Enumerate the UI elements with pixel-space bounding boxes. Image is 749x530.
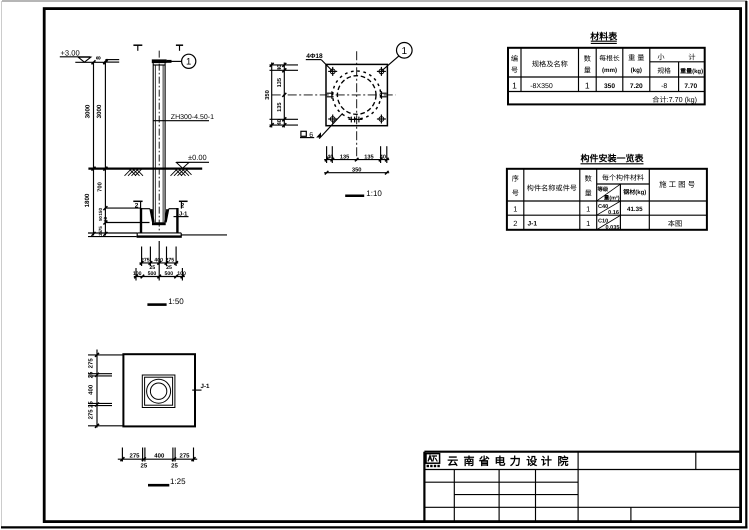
paper bottom edge line	[1, 526, 748, 528]
svg-text:400: 400	[88, 384, 95, 395]
svg-text:275: 275	[88, 358, 95, 369]
svg-text:1800: 1800	[84, 193, 91, 207]
svg-text:钢材(kg): 钢材(kg)	[623, 188, 646, 196]
svg-text:1: 1	[186, 57, 191, 68]
svg-text:275: 275	[179, 453, 190, 460]
pole cap plate (black)	[152, 59, 167, 63]
svg-text:每个构件材料: 每个构件材料	[602, 174, 644, 182]
svg-text:C10: C10	[598, 219, 608, 225]
weld note square symbol	[301, 131, 306, 136]
svg-text:3000: 3000	[85, 104, 92, 118]
svg-text:3000: 3000	[96, 104, 103, 118]
svg-text:135: 135	[277, 103, 283, 112]
svg-text:25: 25	[171, 462, 178, 469]
svg-text:1: 1	[586, 205, 590, 214]
foundation dim row2 line	[134, 276, 185, 278]
plan bottom dim line	[118, 458, 197, 460]
socket inner shading left	[151, 209, 153, 222]
svg-text:本图: 本图	[668, 219, 682, 228]
cup circle inner	[150, 383, 166, 399]
svg-text:41.35: 41.35	[627, 206, 643, 213]
svg-text:量(m³): 量(m³)	[604, 195, 620, 202]
title block top line	[424, 451, 740, 453]
svg-text:计: 计	[688, 53, 695, 62]
svg-text:合计:7.70 (kg): 合计:7.70 (kg)	[652, 95, 697, 104]
svg-text:施工图号: 施工图号	[659, 180, 697, 189]
section mark T left	[133, 45, 142, 51]
svg-text:数: 数	[585, 174, 592, 183]
ground line	[88, 168, 202, 170]
title block vertical lines	[454, 452, 696, 521]
pole type label leader	[154, 120, 210, 122]
under-cap flange line	[153, 64, 165, 66]
stiffener mark right	[380, 91, 387, 99]
dim row2 ticks	[134, 275, 184, 279]
svg-text:25: 25	[88, 401, 95, 408]
weld note flag	[316, 132, 321, 137]
inner ticks	[282, 63, 286, 127]
dim ticks on vertical chains	[92, 60, 108, 236]
section mark T right	[176, 45, 183, 51]
svg-text:2: 2	[513, 219, 517, 228]
svg-text:重量(kg): 重量(kg)	[680, 67, 703, 75]
extension line socket bottom	[105, 222, 149, 224]
plan bottom ticks	[120, 457, 195, 461]
svg-text:25: 25	[166, 265, 172, 271]
paper left edge line	[1, 1, 3, 528]
svg-text:135: 135	[340, 155, 349, 161]
svg-text:100: 100	[177, 271, 186, 277]
section mark 2 left	[133, 201, 142, 209]
svg-text:275: 275	[141, 258, 150, 264]
plan left dim line inner	[283, 63, 285, 128]
foundation dim row1 line	[140, 262, 179, 264]
bolt hole top-right	[377, 67, 386, 76]
svg-text:量: 量	[585, 189, 592, 198]
weld dash ring quadrant arcs	[333, 71, 381, 119]
plan left ticks	[95, 353, 99, 428]
svg-text:C40: C40	[598, 204, 608, 210]
svg-text:1: 1	[586, 219, 590, 228]
svg-text:量: 量	[584, 66, 591, 75]
svg-text:编: 编	[511, 54, 518, 63]
plate square	[326, 64, 387, 125]
title block left line	[423, 452, 425, 521]
svg-text:重 量: 重 量	[628, 53, 644, 62]
svg-text:-8X350: -8X350	[530, 83, 553, 90]
cup foundation left wall	[140, 208, 142, 233]
title underline	[581, 163, 644, 165]
title block horizontal lines	[424, 470, 740, 508]
svg-text:40: 40	[380, 155, 386, 161]
scale bar 1:25	[148, 484, 169, 487]
svg-text:构件安装一览表: 构件安装一览表	[580, 153, 644, 163]
svg-text:1:25: 1:25	[170, 477, 186, 486]
extension line slab bottom	[88, 236, 137, 238]
plate horizontal centerline	[272, 94, 396, 96]
svg-text:J-1: J-1	[528, 221, 538, 228]
bolt hole top-left	[328, 67, 337, 76]
pole centerline	[158, 51, 160, 231]
extension line cup top	[105, 207, 140, 209]
svg-text:135: 135	[364, 155, 373, 161]
weld note underline	[300, 137, 314, 139]
paper top edge line	[2, 0, 747, 2]
svg-text:1: 1	[513, 205, 517, 214]
plate vertical centerline	[356, 51, 358, 162]
svg-text:25: 25	[88, 371, 95, 378]
pole tube inner walls	[154, 65, 156, 222]
pole bottom grout bar	[152, 222, 166, 225]
svg-text:25: 25	[98, 230, 103, 236]
weld note leader	[319, 113, 342, 138]
svg-text:计: 计	[541, 455, 552, 468]
detail bubble 1 (plan)	[397, 43, 413, 59]
J-1 label leader	[192, 389, 201, 391]
stiffener mark left	[327, 91, 334, 99]
bolt hole bottom-left	[328, 115, 337, 124]
dim line vertical 1	[93, 62, 95, 235]
svg-text:500: 500	[148, 271, 157, 277]
svg-text:构件名称或件号: 构件名称或件号	[527, 184, 577, 193]
svg-text:1:10: 1:10	[366, 189, 382, 198]
svg-text:75: 75	[98, 226, 103, 232]
svg-text:275: 275	[165, 258, 174, 264]
svg-text:-8: -8	[661, 83, 667, 90]
cup foundation right wall	[176, 208, 178, 233]
outer ticks	[270, 63, 274, 127]
svg-text:2: 2	[135, 203, 139, 210]
svg-text:350: 350	[352, 167, 362, 174]
plan bottom dim extension lines	[327, 146, 387, 163]
bolt label leader	[321, 60, 332, 71]
level line	[75, 61, 103, 63]
inner cup square inner	[145, 377, 173, 405]
plan bottom extension lines	[122, 448, 193, 462]
svg-text:10: 10	[103, 217, 108, 223]
svg-text:40: 40	[327, 155, 333, 161]
plan left dim line outer	[271, 63, 273, 128]
svg-text:275: 275	[88, 409, 95, 420]
svg-text:25: 25	[149, 265, 155, 271]
pole tube dashed circle	[337, 76, 376, 115]
foundation plan big square	[123, 354, 195, 426]
svg-text:0.16: 0.16	[608, 210, 619, 216]
svg-text:数: 数	[584, 54, 591, 63]
svg-text:400: 400	[154, 453, 165, 460]
svg-text:700: 700	[97, 182, 104, 192]
inner cup square outer	[142, 375, 175, 408]
plan left extension lines	[88, 355, 123, 426]
bubble leader (plan)	[382, 56, 399, 71]
svg-text:材料表: 材料表	[589, 31, 618, 41]
svg-text:350: 350	[604, 83, 615, 90]
svg-text:规格及名称: 规格及名称	[532, 60, 568, 69]
svg-text:号: 号	[511, 66, 518, 75]
slab top line	[137, 232, 181, 234]
slab right edge	[180, 233, 182, 236]
paper right edge line	[745, 1, 747, 529]
ground level underline	[176, 161, 209, 163]
svg-text:7.70: 7.70	[684, 83, 697, 90]
slab right extension line	[181, 234, 227, 236]
svg-text:0.035: 0.035	[606, 225, 620, 231]
dim row1 ticks	[140, 261, 178, 265]
level label underline	[60, 56, 91, 58]
svg-text:1: 1	[585, 81, 590, 91]
svg-text:J-1: J-1	[201, 383, 211, 390]
extension line slab top	[88, 232, 137, 234]
installation table outer box	[507, 169, 707, 230]
pole tube outer walls	[152, 63, 154, 223]
diagonal splits	[597, 184, 620, 229]
socket wall right	[166, 209, 169, 223]
bottom-center weld cluster	[349, 117, 363, 123]
svg-text:设: 设	[526, 455, 538, 468]
plan left dim line	[96, 350, 98, 428]
svg-text:力: 力	[510, 455, 521, 468]
svg-text:150: 150	[98, 208, 103, 216]
cup top edge right	[169, 208, 179, 210]
slab left edge	[136, 233, 138, 236]
socket wall left	[150, 209, 153, 223]
row1 ticks	[325, 158, 389, 162]
svg-text:云: 云	[447, 456, 458, 468]
J-1 tag leader	[174, 216, 189, 218]
level triangle symbol	[78, 57, 91, 62]
svg-text:每根长: 每根长	[599, 55, 620, 63]
svg-text:40: 40	[277, 65, 283, 71]
svg-text:400: 400	[154, 258, 163, 264]
svg-text:40: 40	[277, 119, 283, 125]
institute name	[447, 455, 568, 468]
title double underline	[591, 40, 617, 42]
svg-text:规格: 规格	[657, 67, 671, 75]
socket inner shading right	[165, 209, 167, 222]
ground level triangle	[176, 163, 189, 169]
soil hatch right	[171, 169, 192, 176]
plan bottom dim row1 line	[324, 159, 389, 161]
svg-text:1:50: 1:50	[168, 297, 184, 306]
svg-text:南: 南	[464, 455, 475, 468]
plan bottom dim row2 line	[324, 172, 389, 174]
installation table grid	[507, 169, 707, 230]
svg-text:25: 25	[141, 462, 148, 469]
foundation bottom dim extension lines	[136, 241, 182, 281]
svg-text:8: 8	[95, 56, 102, 60]
material table grid	[508, 48, 705, 92]
svg-text:省: 省	[478, 455, 490, 468]
svg-text:135: 135	[277, 78, 283, 87]
svg-text:1: 1	[512, 81, 517, 91]
detail bubble 1	[182, 54, 196, 68]
svg-text:1: 1	[402, 46, 408, 57]
cup top edge left	[140, 208, 150, 210]
slab bottom black bar	[137, 235, 182, 237]
institute logo	[426, 454, 440, 468]
svg-text:等级: 等级	[597, 186, 609, 193]
svg-text:(kg): (kg)	[631, 67, 642, 74]
detail bubble leader	[166, 60, 182, 62]
section mark 2 right	[179, 201, 188, 209]
cup circle outer	[147, 379, 171, 403]
svg-text:序: 序	[512, 174, 519, 183]
svg-text:J-1: J-1	[179, 211, 188, 217]
svg-text:100: 100	[133, 271, 142, 277]
dim line vertical 2	[104, 62, 106, 235]
svg-text:500: 500	[164, 271, 173, 277]
svg-text:275: 275	[129, 453, 140, 460]
svg-text:±0.00: ±0.00	[188, 153, 207, 162]
scale bar 1:50	[147, 303, 166, 306]
svg-text:ZH300-4.50-1: ZH300-4.50-1	[171, 114, 214, 121]
bolt label underline	[306, 59, 321, 61]
bolt hole bottom-right	[377, 115, 386, 124]
svg-text:电: 电	[495, 455, 506, 468]
cap plate edge double line	[105, 59, 119, 61]
soil hatch left	[125, 169, 144, 176]
svg-text:(mm): (mm)	[602, 67, 617, 74]
scale bar 1:10	[345, 195, 364, 198]
material table outer box	[508, 48, 705, 105]
svg-text:350: 350	[264, 90, 271, 100]
plate thickness tick	[103, 59, 107, 63]
plan left dim extension lines	[270, 65, 299, 125]
svg-text:7.20: 7.20	[630, 83, 643, 90]
row2 ticks	[325, 171, 389, 175]
svg-text:+3.00: +3.00	[61, 48, 80, 57]
svg-text:号: 号	[512, 189, 519, 198]
svg-text:院: 院	[558, 455, 569, 468]
svg-text:小: 小	[657, 53, 665, 62]
